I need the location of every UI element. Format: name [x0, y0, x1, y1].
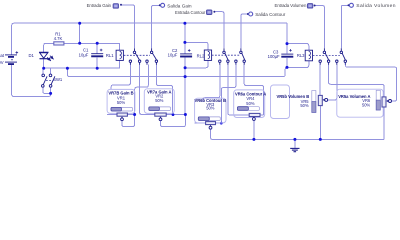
- svg-text:Salida Volumen: Salida Volumen: [356, 3, 396, 9]
- svg-text:Salida Gain: Salida Gain: [167, 3, 192, 8]
- svg-text:50%: 50%: [206, 106, 215, 111]
- svg-text:RL2: RL2: [197, 54, 205, 59]
- svg-text:50%: 50%: [155, 98, 164, 103]
- svg-text:Bat: Bat: [0, 53, 5, 58]
- svg-text:RL3: RL3: [297, 53, 305, 58]
- svg-text:50%: 50%: [246, 101, 255, 106]
- svg-text:100µF: 100µF: [268, 54, 280, 59]
- svg-text:50%: 50%: [117, 100, 126, 105]
- svg-text:50%: 50%: [300, 103, 309, 108]
- svg-text:50%: 50%: [362, 102, 371, 107]
- svg-text:Entrada Gain: Entrada Gain: [87, 3, 112, 8]
- svg-text:SW1: SW1: [53, 77, 63, 82]
- svg-text:RL1: RL1: [106, 53, 114, 58]
- svg-text:10µF: 10µF: [168, 53, 178, 58]
- svg-text:Entrada Volumen: Entrada Volumen: [275, 3, 307, 8]
- svg-text:4.7K: 4.7K: [54, 36, 63, 41]
- svg-text:Entrada Contour: Entrada Contour: [175, 10, 206, 15]
- svg-text:Salida Contour: Salida Contour: [255, 12, 286, 17]
- svg-text:9V: 9V: [0, 60, 4, 65]
- svg-text:10µF: 10µF: [79, 52, 89, 57]
- svg-text:D1: D1: [28, 53, 34, 58]
